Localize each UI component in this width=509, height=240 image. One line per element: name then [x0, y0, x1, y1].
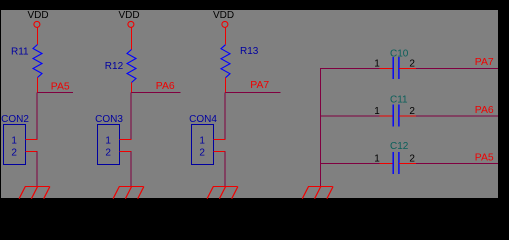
wire VDD stem to resistor R11 pin 1	[37, 28, 39, 45]
pin 1 stub of C12	[380, 163, 394, 165]
ground symbol (column 3)	[207, 187, 238, 199]
connector CON3	[95, 114, 123, 165]
pin 2 stub of CON4	[214, 151, 226, 153]
svg-text:1: 1	[105, 135, 111, 146]
svg-text:R13: R13	[240, 46, 259, 57]
pin 2 stub of C11	[399, 115, 416, 117]
svg-text:1: 1	[374, 58, 380, 69]
svg-text:PA6: PA6	[156, 81, 175, 92]
power symbol VDD (column 2)	[118, 10, 139, 27]
svg-text:C12: C12	[390, 141, 409, 152]
wire vertical bus (capacitor bank)	[320, 68, 322, 186]
capacitor C11	[390, 94, 408, 126]
svg-text:VDD: VDD	[213, 10, 234, 21]
wire node down to CON2 pin 1	[36, 93, 38, 140]
svg-text:2: 2	[199, 148, 205, 159]
svg-text:CON2: CON2	[1, 114, 29, 125]
resistor R11	[11, 45, 42, 78]
svg-text:2: 2	[409, 58, 415, 69]
capacitor C10	[390, 48, 409, 79]
power symbol VDD (column 1)	[27, 10, 48, 27]
wire CON2 pin 2 to ground	[36, 152, 38, 187]
wire bus to C12 pin 1	[321, 163, 380, 165]
svg-text:2: 2	[409, 153, 415, 164]
svg-text:CON4: CON4	[189, 114, 217, 125]
wire CON4 pin 2 to ground	[224, 152, 226, 187]
pin 2 stub of C12	[399, 163, 416, 165]
wire resistor pin 2 down to node PA6	[131, 83, 133, 93]
wire node down to CON4 pin 1	[224, 93, 226, 140]
capacitor C12	[390, 141, 409, 174]
svg-text:R11: R11	[11, 46, 29, 57]
svg-text:2: 2	[11, 148, 17, 159]
wire net stub PA7 horizontal	[226, 92, 281, 94]
wire VDD stem to resistor R12 pin 1	[131, 28, 133, 50]
connector CON4	[189, 114, 217, 165]
wire net stub PA5 horizontal	[38, 92, 74, 94]
pin 1 stub of C11	[380, 115, 394, 117]
connector CON2	[1, 114, 29, 165]
pin 2 stub of CON3	[120, 151, 132, 153]
svg-text:1: 1	[199, 135, 205, 146]
wire node down to CON3 pin 1	[130, 93, 132, 140]
svg-text:PA7: PA7	[250, 80, 269, 91]
wire resistor pin 2 down to node PA7	[225, 78, 227, 93]
svg-text:2: 2	[409, 106, 415, 117]
svg-text:1: 1	[374, 106, 380, 117]
pin 1 stub of CON4	[214, 139, 226, 141]
pin 2 stub of CON2	[26, 151, 38, 153]
svg-text:1: 1	[11, 135, 17, 146]
svg-text:VDD: VDD	[118, 10, 139, 21]
svg-text:PA5: PA5	[51, 82, 70, 93]
svg-text:R12: R12	[105, 61, 124, 72]
svg-text:PA7: PA7	[475, 57, 494, 68]
wire CON3 pin 2 to ground	[130, 152, 132, 187]
svg-text:C11: C11	[390, 94, 408, 105]
pin 1 stub of C10	[380, 68, 394, 70]
resistor R12	[105, 50, 136, 83]
ground symbol (capacitor bank)	[302, 187, 333, 199]
ground symbol (column 1)	[19, 187, 50, 199]
power symbol VDD (column 3)	[213, 10, 234, 27]
wire resistor pin 2 down to node PA5	[37, 78, 39, 93]
resistor R13	[221, 45, 259, 78]
wire C10 pin 2 to net PA7	[416, 68, 498, 70]
wire net stub PA6 horizontal	[132, 92, 181, 94]
svg-text:2: 2	[105, 148, 111, 159]
wire bus to C10 pin 1	[321, 68, 380, 70]
wire VDD stem to resistor R13 pin 1	[225, 28, 227, 45]
pin 2 stub of C10	[399, 68, 416, 70]
pin 1 stub of CON3	[120, 139, 132, 141]
wire bus to C11 pin 1	[321, 115, 380, 117]
wire C12 pin 2 to net PA5	[416, 163, 498, 165]
svg-text:1: 1	[374, 153, 380, 164]
pin 1 stub of CON2	[26, 139, 38, 141]
svg-text:CON3: CON3	[95, 114, 123, 125]
svg-text:C10: C10	[390, 48, 409, 59]
svg-text:PA6: PA6	[475, 105, 494, 116]
wire C11 pin 2 to net PA6	[416, 115, 498, 117]
svg-text:PA5: PA5	[475, 153, 494, 164]
ground symbol (column 2)	[113, 187, 144, 199]
svg-text:VDD: VDD	[27, 10, 48, 21]
